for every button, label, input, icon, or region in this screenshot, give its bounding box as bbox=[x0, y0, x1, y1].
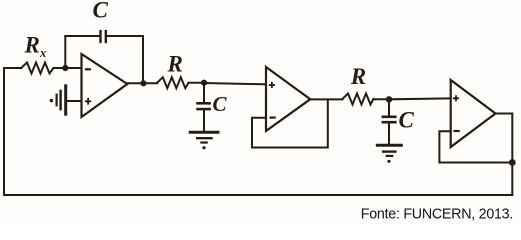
pin label: U2 non-inverting (+) bbox=[269, 82, 275, 88]
wire: node C down to C2 bbox=[203, 83, 205, 103]
svg-text:C: C bbox=[93, 0, 109, 23]
pin label: U2 inverting (-) bbox=[270, 116, 276, 118]
svg-text:Fonte: FUNCERN, 2013.: Fonte: FUNCERN, 2013. bbox=[361, 206, 513, 222]
wire: Rx left lead bbox=[4, 67, 21, 69]
node D (R2 / C3 / U3 junction) bbox=[386, 96, 392, 102]
pin label: U1 inverting (-) bbox=[85, 68, 91, 70]
wire: right vertical rail to bottom feedback bbox=[511, 114, 513, 196]
svg-text:Rx: Rx bbox=[24, 33, 47, 61]
ground at C3 bbox=[376, 145, 403, 163]
wire: R1 to node C bbox=[189, 82, 204, 84]
wire: U3 feedback loop (output rail to - input) bbox=[439, 131, 512, 162]
wire: ground stub to U1 + input bbox=[66, 100, 82, 102]
node E (U3 feedback junction on right rail) bbox=[509, 159, 516, 166]
wire: U2 output to resistor R2 bbox=[310, 98, 342, 100]
wire: C1 to right feedback corner bbox=[106, 35, 143, 37]
wire: U1 output to resistor R1 bbox=[127, 82, 157, 84]
wire: Rx to op-amp U1 inverting input bbox=[54, 67, 82, 69]
op-amp U1 bbox=[82, 54, 128, 117]
resistor R1 bbox=[157, 77, 188, 88]
wire: C2 down to ground bbox=[203, 109, 205, 132]
node C (R1 / C2 / U2 junction) bbox=[201, 80, 207, 86]
wire: C3 down to ground bbox=[388, 122, 390, 145]
ground at C2 bbox=[189, 132, 220, 149]
svg-text:C: C bbox=[399, 108, 415, 133]
resistor R2 bbox=[342, 94, 373, 105]
wire: U2 feedback loop (output to - input) bbox=[252, 99, 328, 147]
wire: U3 output bbox=[496, 113, 513, 115]
resistor Rx bbox=[21, 63, 53, 74]
wire: node C to op-amp U2 + input bbox=[204, 83, 266, 84]
pin label: U3 inverting (-) bbox=[454, 130, 460, 132]
ground (sideways) at U1 + input bbox=[50, 84, 66, 115]
capacitor C3 bbox=[382, 117, 397, 122]
capacitor C1 bbox=[101, 30, 106, 43]
node B (U1 output / feedback junction) bbox=[140, 80, 146, 86]
op-amp U3 bbox=[451, 80, 496, 147]
capacitor C2 bbox=[196, 103, 211, 109]
wire: feedback up from node A bbox=[64, 36, 66, 68]
pin label: U3 non-inverting (+) bbox=[453, 95, 459, 101]
wire: node D down to C3 bbox=[388, 99, 390, 116]
wire: feedback down to U1 output bbox=[142, 36, 144, 83]
node A (U1 inverting input junction) bbox=[62, 65, 68, 71]
svg-text:R: R bbox=[350, 64, 366, 89]
wire: left vertical rail bbox=[3, 68, 5, 195]
wire: feedback top left to C1 bbox=[65, 35, 100, 37]
op-amp U2 bbox=[266, 67, 310, 131]
wire: node D to op-amp U3 + input bbox=[389, 97, 451, 100]
wire: R2 to node D bbox=[373, 98, 389, 100]
svg-text:R: R bbox=[167, 52, 183, 77]
pin label: U1 non-inverting (+) bbox=[85, 98, 91, 105]
wire: bottom feedback rail bbox=[4, 194, 512, 196]
svg-text:C: C bbox=[213, 92, 228, 116]
